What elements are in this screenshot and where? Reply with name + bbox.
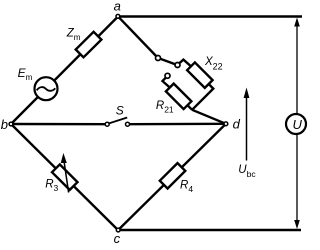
wire terminal 2 to X22 (bent lead) bbox=[179, 60, 191, 67]
selector terminal 1 bbox=[156, 56, 161, 61]
switch S bbox=[105, 118, 129, 127]
svg-text:Em: Em bbox=[18, 66, 33, 82]
voltage U measuring line with arrows bbox=[294, 18, 300, 230]
impedance Zm bbox=[76, 32, 102, 58]
wire b to a diagonal bbox=[11, 17, 118, 125]
svg-text:d: d bbox=[233, 117, 241, 132]
wire R21 bottom to join bbox=[188, 105, 193, 110]
svg-text:X22: X22 bbox=[204, 56, 223, 72]
svg-text:c: c bbox=[114, 231, 121, 246]
wire selector blade terminal1 to terminal2 bbox=[160, 59, 175, 65]
svg-text:R4: R4 bbox=[180, 179, 193, 194]
source Em bbox=[35, 77, 58, 100]
resistor R21 bbox=[166, 84, 192, 110]
wire c to d diagonal bbox=[118, 124, 226, 230]
node b bbox=[9, 122, 13, 126]
svg-text:R3: R3 bbox=[45, 179, 58, 194]
resistor R4 bbox=[160, 163, 186, 188]
svg-text:Zm: Zm bbox=[66, 27, 81, 42]
wire b to switch bbox=[11, 123, 107, 126]
wire a to selector terminal 1 bbox=[118, 16, 158, 58]
resistor X22 bbox=[187, 62, 213, 88]
wire b to c diagonal bbox=[11, 124, 118, 230]
R3 adjustment arrow bbox=[61, 153, 69, 193]
wire join to d bbox=[192, 110, 226, 124]
arrow Ubc bbox=[244, 88, 250, 161]
svg-text:Ubc: Ubc bbox=[238, 164, 256, 179]
svg-text:R21: R21 bbox=[156, 100, 174, 115]
svg-text:a: a bbox=[114, 0, 121, 13]
selector terminal 3 (R21) bbox=[165, 73, 170, 78]
svg-text:U: U bbox=[293, 117, 303, 132]
wire switch to d bbox=[130, 123, 226, 126]
svg-text:b: b bbox=[1, 117, 8, 132]
node d bbox=[224, 122, 228, 126]
wire top rail a to right bbox=[118, 15, 302, 17]
node c bbox=[116, 228, 120, 232]
selector terminal 2 (X22) bbox=[175, 63, 180, 68]
svg-text:S: S bbox=[116, 104, 124, 118]
node a bbox=[116, 14, 120, 18]
wire terminal 3 to R21 (bent lead) bbox=[163, 78, 170, 88]
wire X22 bottom to join (bent lead) bbox=[192, 84, 213, 110]
wire bottom rail c to right bbox=[118, 229, 301, 231]
resistor R3 bbox=[52, 164, 78, 190]
voltmeter U circle bbox=[286, 114, 306, 134]
